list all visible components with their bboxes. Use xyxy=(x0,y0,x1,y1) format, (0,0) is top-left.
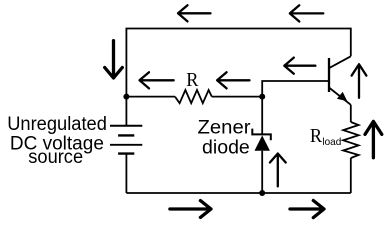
current arrow beside zener (thin, pointing up) xyxy=(270,154,286,187)
svg-text:R: R xyxy=(186,69,199,91)
wire top rail from left rail to collector drop xyxy=(126,29,350,97)
current arrow bottom rail right (thick, pointing right) xyxy=(290,201,324,218)
label Zener diode xyxy=(198,118,252,159)
resistor Rload xyxy=(343,122,358,158)
transistor Q1 base bar xyxy=(328,58,330,92)
zener diode D1 anode triangle xyxy=(255,135,270,150)
current arrow top right (thin, pointing left) xyxy=(290,5,324,21)
svg-text:R: R xyxy=(310,125,323,147)
current arrow base wire (thin, pointing left) xyxy=(284,58,315,74)
current arrow beside load resistor (thick, pointing up) xyxy=(365,121,382,157)
transistor Q1 collector diagonal xyxy=(330,56,351,68)
current arrow right of resistor R (thin, pointing left) xyxy=(217,72,249,88)
battery B1 unregulated DC voltage source xyxy=(110,126,142,154)
svg-text:load: load xyxy=(322,136,341,148)
svg-text:Zener: Zener xyxy=(198,118,252,139)
label Unregulated DC voltage source xyxy=(7,114,107,168)
node junction at zener bottom rail xyxy=(259,190,265,196)
wire zener anode down to bottom rail xyxy=(261,151,263,193)
wire battery negative to bottom rail xyxy=(125,154,127,193)
current arrow bottom rail left (thick, pointing right) xyxy=(170,201,211,218)
current arrow top left (thin, pointing left) xyxy=(178,5,211,21)
wire zener node down to zener cathode xyxy=(261,97,263,135)
transistor Q1 emitter diagonal xyxy=(330,88,351,105)
svg-text:source: source xyxy=(28,147,83,168)
node junction at battery positive / R xyxy=(123,94,129,100)
wire unregulated supply to resistor R xyxy=(126,96,175,98)
zener diode D1 cathode bar xyxy=(252,129,270,141)
wire resistor R to zener node xyxy=(212,96,262,98)
transistor Q1 emitter arrowhead xyxy=(337,92,347,101)
wire load resistor to bottom rail xyxy=(350,158,352,193)
wire battery positive stub xyxy=(125,97,127,126)
wire emitter to load resistor xyxy=(350,105,352,122)
svg-text:diode: diode xyxy=(202,138,250,159)
svg-text:Unregulated: Unregulated xyxy=(7,114,107,135)
current arrow beside collector (thin, pointing up) xyxy=(352,64,367,98)
current arrow into battery (thick, pointing down) xyxy=(105,41,123,78)
wire bottom rail xyxy=(126,192,350,194)
resistor R xyxy=(175,90,212,103)
current arrow left of resistor R (thin, pointing left) xyxy=(140,72,174,88)
node junction at zener top xyxy=(259,94,265,100)
wire base net: node up then to transistor base xyxy=(262,81,328,97)
